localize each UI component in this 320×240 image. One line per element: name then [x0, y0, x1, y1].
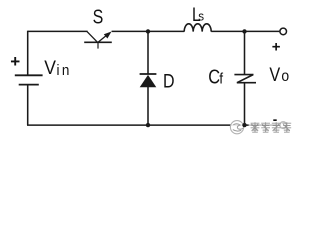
- wire top right (inductor to output node): [211, 30, 279, 32]
- svg-text:D: D: [163, 70, 175, 92]
- wire top middle (switch to inductor): [112, 30, 185, 32]
- inductor Ls (three humps): [184, 24, 211, 32]
- svg-text:V: V: [44, 56, 56, 78]
- transistor switch S: collector diagonal: [87, 31, 97, 42]
- node junction dot (capacitor bottom): [242, 123, 246, 127]
- transistor switch S: emitter diagonal with arrowhead: [98, 35, 107, 42]
- wire diode branch upper: [147, 31, 149, 73]
- wire left vertical (battery - down to bottom rail): [27, 85, 29, 126]
- diode D cathode bar: [140, 73, 157, 75]
- node junction dot (diode top): [146, 29, 150, 33]
- wire bottom rail: [27, 124, 279, 126]
- terminal circle bottom right (under watermark): [280, 122, 287, 129]
- node junction dot (diode bottom): [146, 123, 150, 127]
- wire left vertical (top wire down to battery + plate): [27, 31, 29, 75]
- terminal circle top right: [280, 28, 287, 35]
- transistor switch S: base stub: [97, 42, 99, 48]
- svg-text:o: o: [281, 68, 289, 85]
- svg-text:f: f: [219, 70, 223, 86]
- svg-text:S: S: [93, 6, 104, 28]
- svg-text:in: in: [57, 62, 72, 79]
- watermark text (four CJK-like glyph blobs): [251, 122, 292, 132]
- wire capacitor branch upper: [244, 31, 246, 74]
- svg-text:+: +: [10, 52, 20, 71]
- watermark white band under text: [249, 120, 295, 135]
- diode D triangle: [140, 75, 157, 87]
- watermark logo circle: [230, 121, 243, 134]
- svg-text:V: V: [269, 63, 280, 85]
- capacitor Cf (Z-style plates): [234, 75, 256, 83]
- wire top-left horizontal (Vin+ to switch S): [28, 30, 88, 32]
- wire diode branch lower: [147, 87, 149, 125]
- svg-text:s: s: [198, 9, 204, 24]
- svg-text:+: +: [272, 39, 281, 56]
- battery Vin: [15, 75, 43, 84]
- node junction dot (capacitor top): [242, 29, 246, 33]
- transistor switch S: base bar: [84, 41, 112, 43]
- wire capacitor branch lower: [244, 83, 246, 125]
